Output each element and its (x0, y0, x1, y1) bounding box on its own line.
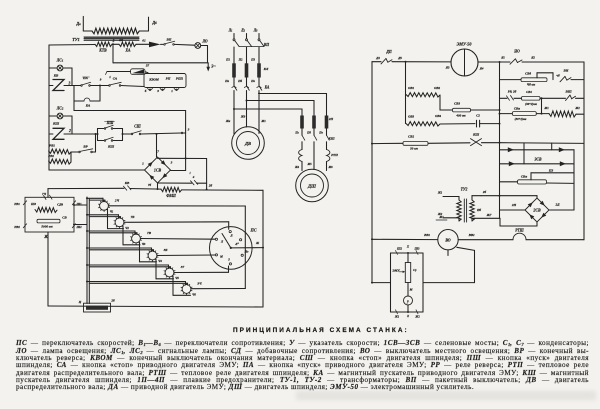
svg-text:Х: Х (406, 245, 410, 249)
svg-text:Х: Х (406, 314, 410, 318)
svg-text:КТВ: КТВ (98, 49, 107, 53)
svg-text:Д4: Д4 (375, 56, 380, 60)
svg-text:3Ч: 3Ч (196, 282, 202, 286)
svg-text:ПА: ПА (82, 76, 89, 80)
svg-text:Ж1: Ж1 (438, 215, 444, 219)
svg-text:l: l (190, 171, 191, 175)
svg-text:РВ2: РВ2 (14, 225, 20, 229)
svg-text:чб: чб (556, 74, 560, 78)
svg-text:Нб: Нб (476, 208, 481, 212)
svg-text:Ш2: Ш2 (75, 225, 82, 229)
svg-text:ЛС1: ЛС1 (56, 59, 64, 63)
svg-text:КВ: КВ (53, 74, 59, 78)
svg-text:Л°: Л° (234, 242, 239, 246)
svg-text:Ч5: Ч5 (175, 276, 179, 280)
svg-text:Ж1: Ж1 (260, 119, 266, 123)
svg-text:1: 1 (142, 162, 144, 166)
svg-text:5: 5 (228, 258, 230, 262)
svg-text:1: 1 (171, 89, 173, 93)
svg-text:Ж1: Ж1 (543, 106, 549, 110)
svg-text:9: 9 (100, 78, 102, 82)
svg-text:Ж4: Ж4 (294, 165, 300, 169)
svg-text:РТШ: РТШ (515, 229, 524, 233)
svg-text:б: б (145, 89, 147, 93)
svg-text:3: 3 (156, 89, 159, 93)
svg-text:П2: П2 (238, 58, 243, 62)
svg-text:2П: 2П (328, 117, 334, 121)
svg-text:Я1: Я1 (500, 56, 505, 60)
svg-text:Щ: Щ (118, 38, 123, 42)
svg-text:ФВШ: ФВШ (166, 194, 176, 198)
svg-text:Ч6: Ч6 (192, 293, 196, 297)
svg-text:ХА: ХА (124, 49, 131, 53)
svg-text:ВО: ВО (444, 238, 450, 243)
svg-text:Ц: Ц (78, 300, 82, 304)
svg-text:3: 3 (68, 82, 71, 86)
svg-text:(30+2)ом: (30+2)ом (525, 102, 537, 106)
svg-text:НО: НО (513, 50, 520, 54)
svg-text:37: 37 (180, 265, 185, 269)
svg-text:1: 1 (109, 75, 111, 79)
svg-text:РР, 2б: РР, 2б (508, 90, 517, 94)
svg-text:(30+2)ом: (30+2)ом (515, 117, 527, 121)
svg-text:Пб: Пб (237, 79, 242, 83)
svg-text:Ж1: Ж1 (437, 191, 443, 195)
svg-text:КВОМ: КВОМ (148, 78, 160, 82)
svg-text:ОВ3: ОВ3 (408, 115, 415, 119)
svg-text:СВ3: СВ3 (454, 102, 461, 106)
svg-text:СВ2: СВ2 (408, 135, 415, 139)
svg-text:Ш3: Ш3 (30, 202, 37, 206)
svg-text:ЭМУ-50: ЭМУ-50 (457, 42, 473, 47)
svg-text:50 ом: 50 ом (410, 147, 418, 151)
svg-text:Я2: Я2 (530, 56, 535, 60)
svg-text:2б: 2б (482, 190, 487, 194)
svg-text:7: 7 (157, 150, 159, 154)
svg-text:ДВ: ДВ (244, 141, 251, 146)
svg-text:3~: 3~ (210, 64, 216, 69)
svg-text:3Б: 3Б (163, 248, 169, 252)
svg-text:ВШ: ВШ (564, 90, 571, 94)
svg-text:Пе: Пе (318, 131, 323, 135)
svg-text:КШ: КШ (327, 137, 334, 141)
svg-text:СД4: СД4 (57, 203, 64, 207)
svg-text:РТП: РТП (331, 153, 338, 157)
svg-text:ОВ4: ОВ4 (435, 114, 442, 118)
svg-text:Ч1: Ч1 (110, 209, 114, 213)
svg-text:Ч3: Ч3 (142, 242, 146, 246)
svg-text:КШ: КШ (52, 122, 59, 126)
svg-text:7В: 7В (147, 231, 152, 235)
svg-text:ВР: ВР (82, 145, 88, 149)
svg-text:Су: Су (413, 268, 417, 272)
svg-text:61: 61 (142, 39, 146, 43)
svg-text:Л1: Л1 (228, 29, 233, 33)
svg-text:ВВ1: ВВ1 (423, 233, 431, 237)
svg-text:КЛ: КЛ (263, 67, 269, 71)
svg-text:2Ч: 2Ч (114, 198, 120, 202)
svg-text:Пв: Пв (250, 79, 255, 83)
svg-text:Я3: Я3 (445, 66, 450, 70)
svg-text:2: 2 (68, 129, 71, 133)
svg-text:2б: 2б (208, 184, 213, 188)
svg-text:Н0: Н0 (244, 250, 249, 254)
svg-text:Л2: Л2 (240, 29, 245, 33)
svg-text:у: у (406, 299, 409, 303)
svg-text:СВм: СВм (514, 107, 520, 111)
svg-text:3: 3 (187, 128, 190, 132)
svg-text:Дя: Дя (75, 21, 81, 26)
svg-text:РВ1: РВ1 (14, 202, 20, 206)
svg-text:7Б: 7Б (131, 215, 136, 219)
svg-text:2Д: 2Д (555, 203, 561, 207)
svg-text:ТУ1: ТУ1 (72, 37, 80, 42)
svg-text:Жа: Жа (225, 119, 231, 123)
svg-text:Ж1: Ж1 (394, 315, 400, 319)
svg-text:Ж6: Ж6 (327, 165, 333, 169)
svg-text:7б: 7б (148, 183, 152, 187)
svg-text:Ш3: Ш3 (414, 247, 421, 251)
svg-text:КА: КА (264, 86, 270, 90)
svg-text:ВН: ВН (563, 69, 569, 73)
svg-text:400 ом: 400 ом (455, 114, 466, 118)
svg-text:ОВ1: ОВ1 (408, 86, 415, 90)
svg-text:Я4: Я4 (479, 67, 484, 71)
svg-text:Ж2: Ж2 (414, 315, 420, 319)
svg-text:Л: Л (220, 240, 224, 244)
svg-text:СВм: СВм (521, 175, 527, 179)
svg-text:Ж: Ж (255, 241, 260, 245)
svg-text:ПЗ: ПЗ (548, 169, 554, 173)
svg-text:2Н: 2Н (511, 203, 517, 207)
svg-text:ЖГ: ЖГ (486, 213, 492, 217)
svg-text:С2: С2 (476, 114, 480, 118)
svg-text:СВд: СВд (525, 72, 532, 76)
svg-text:КВ: КВ (124, 181, 130, 185)
svg-text:Пг: Пг (294, 131, 298, 135)
svg-text:ДП: ДП (385, 50, 391, 54)
svg-text:Чб ом: Чб ом (527, 83, 536, 87)
svg-text:РВ1: РВ1 (49, 144, 55, 148)
svg-text:Ж2: Ж2 (574, 106, 580, 110)
svg-text:РП: РП (166, 77, 171, 81)
svg-text:Па: Па (224, 79, 229, 83)
svg-text:Пд: Пд (306, 131, 311, 135)
svg-text:3: 3 (170, 161, 173, 165)
svg-text:Ж0: Ж0 (240, 115, 246, 119)
svg-text:ЗСВ: ЗСВ (534, 158, 542, 162)
svg-text:ВВ2: ВВ2 (468, 233, 476, 237)
svg-text:РВ2: РВ2 (48, 154, 54, 158)
svg-text:КШ: КШ (472, 133, 479, 137)
svg-text:Ч4: Ч4 (158, 259, 162, 263)
svg-text:ВП: ВП (166, 38, 172, 42)
svg-text:Ч2: Ч2 (125, 226, 129, 230)
svg-text:2: 2 (112, 39, 115, 43)
svg-text:2б: 2б (110, 299, 115, 303)
svg-text:ТУ2: ТУ2 (461, 188, 468, 192)
svg-text:СШ: СШ (134, 125, 141, 129)
svg-text:ЛО: ЛО (201, 40, 208, 44)
svg-text:СВ: СВ (62, 216, 67, 220)
svg-text:Л3: Л3 (253, 29, 258, 33)
svg-text:Д5: Д5 (397, 56, 402, 60)
svg-text:СВ4: СВ4 (526, 90, 532, 94)
svg-text:ДШ: ДШ (307, 184, 317, 189)
svg-text:П1: П1 (225, 58, 230, 62)
svg-text:37: 37 (145, 64, 150, 68)
svg-text:КА: КА (85, 104, 91, 108)
svg-text:4: 4 (192, 175, 195, 179)
svg-text:5000 ом: 5000 ом (41, 225, 53, 229)
svg-text:ПС: ПС (249, 228, 256, 233)
svg-text:РШ1: РШ1 (176, 77, 184, 81)
svg-text:2СВ: 2СВ (532, 207, 541, 212)
svg-text:Л: Л (229, 234, 233, 238)
svg-text:Ж5: Ж5 (306, 162, 312, 166)
svg-text:Ш2: Ш2 (396, 247, 403, 251)
svg-text:ОВ2: ОВ2 (434, 86, 441, 90)
svg-text:М: М (219, 255, 223, 259)
svg-text:ЛС2: ЛС2 (56, 107, 64, 111)
svg-text:Дб: Дб (151, 20, 157, 25)
svg-text:1СВ: 1СВ (154, 167, 162, 172)
svg-text:М: М (409, 288, 413, 292)
svg-text:СА: СА (113, 77, 118, 81)
svg-text:7Ч: 7Ч (42, 192, 47, 196)
svg-text:П3: П3 (250, 58, 255, 62)
svg-text:КШ: КШ (107, 145, 114, 149)
